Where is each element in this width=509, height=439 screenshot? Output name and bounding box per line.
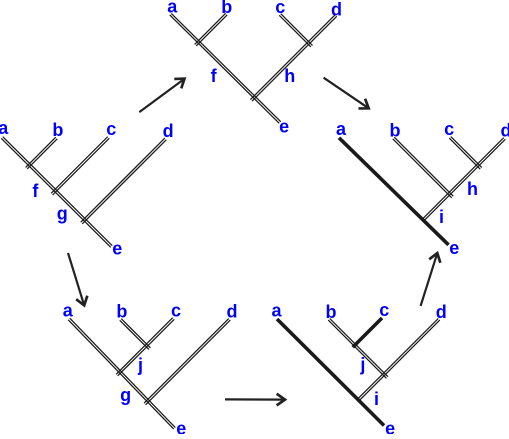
svg-text:c: c <box>106 119 116 139</box>
arrow: top tree to right tree <box>324 78 369 109</box>
left tree: edge leaf d to lower junction <box>81 138 167 224</box>
top tree: edge leaf b to node f <box>195 13 228 46</box>
bottom-left tree: main edge from leaf a through node g down to tip e <box>68 318 175 429</box>
svg-text:e: e <box>449 238 459 258</box>
right tree: thick main edge from leaf a to tip e <box>339 138 449 245</box>
svg-text:e: e <box>385 418 395 434</box>
right tree: edge leaf b to node i <box>393 137 454 198</box>
bottom-right tree: edge leaf d to node i <box>358 319 440 401</box>
arrow: left tree to top tree <box>139 79 184 112</box>
left tree: edge leaf c to node g <box>51 137 109 195</box>
svg-text:f: f <box>211 66 218 86</box>
top tree: edge leaf d to node h <box>308 15 337 44</box>
svg-text:i: i <box>439 207 444 227</box>
svg-text:a: a <box>167 0 178 17</box>
top tree: edge leaf c to node h <box>279 14 312 47</box>
bottom-right tree: thick main edge from leaf a to tip e <box>277 319 384 426</box>
svg-text:a: a <box>0 118 9 138</box>
svg-text:a: a <box>336 119 347 139</box>
svg-text:g: g <box>120 385 131 405</box>
bottom-left tree: edge leaf c to node j <box>146 318 175 347</box>
svg-text:d: d <box>436 302 447 322</box>
svg-text:e: e <box>279 117 289 137</box>
svg-text:c: c <box>171 300 181 320</box>
svg-text:b: b <box>221 0 232 17</box>
svg-text:j: j <box>137 355 143 375</box>
bottom-right tree: edge leaf b through node j to junction with d <box>328 319 388 379</box>
svg-text:a: a <box>63 300 74 320</box>
bottom-left tree: edge leaf d to lower junction <box>144 319 230 405</box>
svg-text:e: e <box>112 238 122 258</box>
left tree: main edge from leaf a through nodes f and g down to tip e <box>1 137 112 248</box>
svg-text:d: d <box>227 302 238 322</box>
top tree: edge node h to root junction <box>250 42 309 101</box>
left tree: edge leaf b to node f <box>26 137 58 169</box>
bottom-left tree: edge node j to node g <box>116 345 147 376</box>
svg-text:c: c <box>275 0 285 17</box>
svg-text:a: a <box>271 300 282 320</box>
svg-text:b: b <box>326 302 337 322</box>
svg-text:h: h <box>284 66 295 86</box>
arrow: bottom-left tree to bottom-right tree <box>225 394 285 406</box>
arrow: bottom-right tree to right tree <box>421 253 441 306</box>
top tree: main edge from leaf a through nodes f and root down to tip e <box>170 13 281 123</box>
arrow: left tree to bottom-left tree <box>68 253 87 306</box>
bottom-left tree: edge leaf b to node j <box>120 319 151 350</box>
right tree: edge leaf c to node h <box>449 137 482 170</box>
svg-text:h: h <box>467 179 478 199</box>
svg-text:c: c <box>444 119 454 139</box>
svg-text:b: b <box>52 120 63 140</box>
svg-text:d: d <box>163 121 174 141</box>
svg-text:i: i <box>374 389 379 409</box>
svg-text:g: g <box>57 203 68 223</box>
bottom-right tree: thick edge leaf c to node j <box>353 318 382 347</box>
svg-text:j: j <box>359 355 365 375</box>
svg-text:e: e <box>176 418 186 434</box>
svg-text:d: d <box>331 0 342 19</box>
svg-text:c: c <box>379 300 389 320</box>
svg-text:d: d <box>501 121 509 141</box>
svg-text:b: b <box>116 302 127 322</box>
svg-text:b: b <box>390 120 401 140</box>
svg-text:f: f <box>32 181 39 201</box>
right tree: main edge from leaf d through nodes h and i to root <box>422 138 505 221</box>
